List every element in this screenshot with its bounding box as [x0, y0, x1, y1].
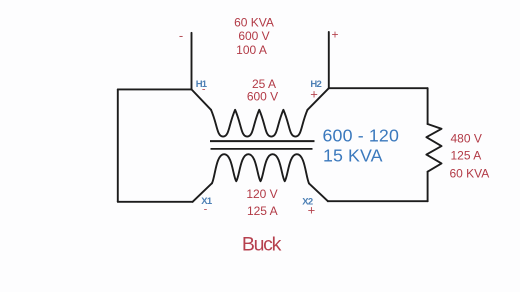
svg-text:-: - — [202, 84, 206, 96]
wire: H1 node horizontal to left side — [118, 88, 192, 90]
wire: load right vertical, bottom section — [427, 172, 429, 202]
svg-text:480 V: 480 V — [451, 132, 482, 146]
svg-text:600 V: 600 V — [238, 29, 269, 43]
wire: load bottom horizontal back to X2 — [328, 200, 428, 202]
wire: diagonal from X2 winding end down to bottom wire — [309, 183, 328, 201]
svg-text:+: + — [308, 202, 316, 217]
transformer core upper bar — [210, 140, 315, 142]
svg-text:120 V: 120 V — [246, 187, 277, 201]
wire: H2 node horizontal to load — [329, 87, 428, 89]
wire: diagonal from primary winding end up to H2 node — [308, 88, 329, 110]
svg-text:60 KVA: 60 KVA — [234, 16, 274, 30]
svg-text:-: - — [179, 28, 183, 43]
wire: left source terminal lead (negative) — [191, 33, 193, 90]
svg-text:125 A: 125 A — [247, 204, 278, 218]
wire: right source terminal lead (positive) — [328, 32, 330, 88]
svg-text:Buck: Buck — [242, 234, 282, 256]
svg-text:600 - 120: 600 - 120 — [323, 125, 400, 145]
wire: load right vertical, top section — [427, 88, 429, 124]
transformer T1 secondary winding X1-X2 (120 V, 4 loops) — [212, 154, 309, 183]
transformer T1 primary winding H1-H2 (600 V, 4 loops) — [211, 110, 308, 137]
wire: diagonal from bottom wire up to X1 winding end — [193, 183, 212, 202]
transformer core lower bar — [211, 148, 313, 150]
svg-text:+: + — [310, 86, 318, 101]
wire: bottom horizontal of source loop — [118, 201, 193, 203]
svg-text:-: - — [204, 204, 208, 216]
resistor R load (480 V / 125 A / 60 KVA) — [426, 124, 441, 172]
svg-text:60 KVA: 60 KVA — [450, 167, 490, 181]
svg-text:100 A: 100 A — [236, 43, 267, 57]
wire: diagonal from H1 node down to primary winding start — [192, 89, 212, 109]
wire: left vertical side of source loop — [117, 89, 119, 201]
svg-text:125 A: 125 A — [451, 148, 482, 162]
svg-text:600 V: 600 V — [247, 89, 278, 103]
svg-text:+: + — [331, 28, 338, 42]
svg-text:15 KVA: 15 KVA — [323, 145, 383, 165]
